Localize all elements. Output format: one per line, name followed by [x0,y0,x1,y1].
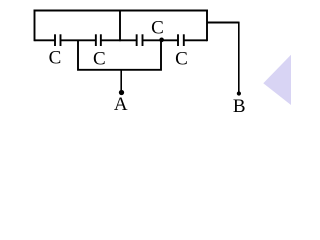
svg-text:C: C [93,48,106,69]
svg-text:B: B [233,96,246,117]
capacitor C4 [178,34,184,46]
wire top edge [34,10,208,12]
capacitor C2 [96,34,101,46]
wire main segment 1 [35,39,55,41]
wire branch to B horizontal [207,22,239,24]
svg-text:C: C [175,48,188,69]
svg-text:C: C [151,17,164,38]
wire main segment 5 [184,39,207,41]
wire to node B vertical [238,22,240,93]
capacitor C1 [55,34,61,46]
node A [119,90,124,95]
wire mid vertical [119,11,121,42]
wire right edge [206,10,208,42]
wire main segment 2 [61,39,96,41]
wire main segment 3 [101,39,136,41]
node B [237,91,241,95]
wire lower loop [78,40,161,70]
capacitor C3 [137,34,143,46]
wire to node A vertical [120,70,122,92]
svg-text:C: C [49,47,62,68]
junction dot [159,38,164,43]
wire left edge [34,10,36,42]
svg-text:A: A [114,94,128,115]
wire main segment 4 [143,39,178,41]
